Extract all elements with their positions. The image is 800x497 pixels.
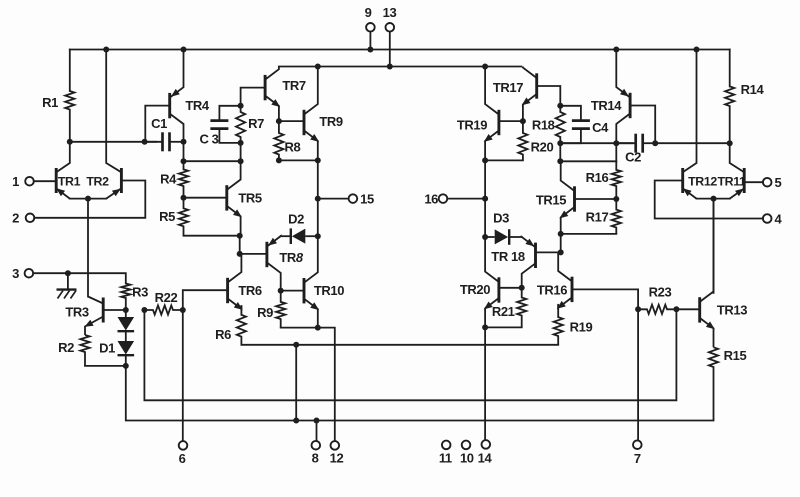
svg-text:C 3: C 3 (199, 132, 218, 147)
wire pin 1 to TR1 base (34, 180, 56, 182)
wire R21 bottom to TR20 emitter (485, 326, 522, 328)
node TR8 collector / TR10 base / R9 (278, 288, 284, 294)
transistor TR5 (225, 185, 228, 210)
resistor R20 (518, 121, 527, 160)
node R8 bottom / TR9 emitter (276, 157, 282, 163)
wire TR4 collector chain down (183, 142, 185, 161)
wire TR11-TR12 emitter bridge (697, 198, 730, 200)
pin 13 (386, 23, 395, 32)
svg-text:TR7: TR7 (282, 78, 306, 93)
svg-text:TR1: TR1 (58, 175, 81, 189)
wire R22 right up to TR6 base (183, 290, 228, 310)
wire TR9 emitter node down to pin 15 (317, 160, 319, 198)
wire TR8 emitter to D2 cathode (281, 235, 291, 237)
svg-text:TR13: TR13 (717, 303, 747, 318)
resistor R9 (276, 291, 285, 328)
node R22 right (180, 307, 186, 313)
node TR17 emitter / R20 / TR19 base (520, 118, 526, 124)
svg-text:TR9: TR9 (319, 114, 343, 129)
junction pin9/rail (367, 47, 373, 53)
svg-text:R19: R19 (570, 320, 593, 335)
svg-text:R16: R16 (586, 170, 609, 185)
wire TR15 emitter node down (560, 234, 562, 253)
pin 2 (26, 214, 35, 223)
wire R2 bottom to D1 bottom (85, 365, 126, 367)
transistor TR17 (535, 73, 538, 98)
svg-text:C2: C2 (625, 150, 641, 165)
svg-text:3: 3 (12, 266, 19, 281)
diode D2 (290, 228, 292, 244)
wire R16 row (560, 160, 616, 162)
pin 16 (439, 194, 448, 203)
resistor R22 (144, 305, 182, 314)
wire TR7 emitter node to TR9 base (279, 120, 303, 122)
pin 5 (763, 178, 772, 187)
node C2 left / TR14 collector (613, 140, 619, 146)
transistor TR19 (497, 110, 500, 135)
wire pin 7 drop (637, 309, 639, 440)
node TR9 emitter bottom (315, 157, 321, 163)
node emitters TR1/TR2 (85, 196, 91, 202)
wire pin 9 to rail (369, 32, 371, 50)
svg-text:TR11: TR11 (717, 175, 746, 189)
wire TR1-TR2 emitter bridge (70, 198, 106, 200)
wire R9 bottom to TR10 emitter (281, 327, 318, 329)
svg-text:TR 18: TR 18 (491, 249, 525, 264)
wire TR17 emitter node to TR19 base (499, 120, 523, 122)
node C2 right / TR14 base (652, 140, 658, 146)
transistor TR9 (303, 110, 306, 135)
node R1 bottom / TR1 collector (67, 139, 73, 145)
transistor TR6 (226, 278, 229, 303)
junction TR19 collector / rail2 (482, 64, 488, 70)
wire C3 bottom stub (219, 129, 240, 143)
junction pin13/rail2 (387, 64, 393, 70)
svg-text:6: 6 (179, 451, 186, 466)
svg-text:TR8: TR8 (279, 250, 304, 265)
node R18 bottom / C2 row (557, 140, 563, 146)
resistor R19 (554, 317, 563, 345)
wire TR4 base (145, 106, 169, 142)
resistor R15 (709, 347, 718, 420)
node TR20 emitter / R21 bottom (482, 324, 488, 330)
transistor TR10 (303, 278, 306, 303)
transistor TR7 (264, 75, 267, 100)
node ground tap (65, 270, 71, 276)
svg-text:TR2: TR2 (86, 175, 109, 189)
svg-text:12: 12 (330, 451, 344, 466)
svg-text:TR17: TR17 (493, 80, 523, 95)
transistor TR13 (698, 297, 701, 322)
svg-text:C4: C4 (592, 120, 609, 135)
wire pin 13 to second rail (389, 32, 391, 67)
node R4/R5/TR5 base (181, 195, 187, 201)
pin 8 (312, 441, 321, 450)
node pin 8 tap (314, 418, 320, 424)
transistor TR8 (265, 242, 268, 267)
wire TR20 emitter to pin 14 (484, 327, 486, 440)
transistor TR20 (497, 277, 500, 302)
svg-text:TR16: TR16 (537, 283, 567, 298)
wire TR7 base (241, 88, 266, 106)
wire output emitters bus (R6-R19) (241, 344, 558, 346)
node pin15 tap (315, 196, 321, 202)
wire R5 bottom to TR5 emitter node (184, 235, 240, 237)
wire tap down (295, 345, 297, 421)
wire emitters down to TR3 collector (87, 199, 89, 297)
node R22 left (141, 307, 147, 313)
wire C4 bottom stub (560, 129, 581, 144)
svg-text:15: 15 (360, 192, 374, 207)
wire emitters down to TR13 collector (713, 199, 715, 293)
node R4 top / R7C3 row (181, 158, 187, 164)
wire second rail (TR7-TR17 collectors) (279, 66, 521, 68)
node R16/R17/TR15 base (613, 196, 619, 202)
pin 11 (442, 441, 451, 450)
wire TR16 base (572, 289, 638, 309)
capacitor C1 (161, 132, 164, 151)
node R23 right / TR13 base (673, 306, 679, 312)
svg-text:16: 16 (424, 192, 438, 207)
resistor R1 (65, 91, 74, 142)
resistor R16 (612, 161, 621, 199)
svg-text:R2: R2 (58, 340, 74, 355)
svg-text:R8: R8 (285, 140, 301, 155)
svg-text:R21: R21 (492, 304, 515, 319)
wire R22 left down to bus (144, 309, 676, 400)
wire TR20 base (499, 287, 522, 289)
wire C4 top stub (560, 106, 581, 121)
svg-text:2: 2 (12, 211, 19, 226)
resistor R14 (725, 86, 734, 143)
transistor TR14 (629, 93, 632, 118)
svg-text:C1: C1 (151, 116, 167, 131)
transistor TR3 (102, 298, 105, 323)
node TR18 base / TR16 collector (558, 249, 564, 255)
junction TR9 collector / rail2 (315, 64, 321, 70)
wire R8 bottom to TR9 emitter (279, 159, 318, 161)
node TR19 emitter bottom (482, 157, 488, 163)
node D1 bottom / R2 (123, 363, 129, 369)
junction TR4 emitter / rail (181, 47, 187, 53)
wire R14 top lead from rail (729, 50, 731, 87)
svg-text:4: 4 (775, 211, 783, 226)
svg-text:10: 10 (460, 451, 474, 466)
svg-text:1: 1 (12, 174, 19, 189)
node R7/C3 bottom (238, 140, 244, 146)
transistor TR1 (55, 168, 58, 193)
node R16 row tee (557, 158, 563, 164)
resistor R17 (612, 199, 621, 234)
wire TR19 emitter node down to pin16 tap (484, 160, 486, 198)
svg-text:R1: R1 (42, 95, 58, 110)
wire D1 bottom down to lower bus (126, 366, 714, 421)
wire TR15 base (575, 198, 617, 200)
resistor R3 (121, 284, 130, 311)
svg-text:11: 11 (439, 451, 452, 466)
svg-text:TR15: TR15 (536, 193, 566, 208)
svg-text:R18: R18 (532, 118, 555, 133)
svg-text:TR6: TR6 (238, 283, 262, 298)
wire C2 row right to R14 bottom (655, 142, 730, 144)
resistor R6 (237, 315, 246, 345)
wire TR3 base to R3/D1 node (103, 309, 126, 311)
wire pin 3 to R3 (33, 273, 126, 283)
wire R22 right down to pin 6 (182, 310, 184, 441)
node D2 anode / TR10 collector (315, 233, 321, 239)
wire TR5 emitter node down (239, 236, 241, 254)
capacitor C4 (572, 119, 590, 122)
wire R7C3 row (184, 160, 241, 162)
junction tap/lower bus (293, 418, 299, 424)
wire TR14 base (630, 106, 655, 144)
wire TR18 base row (536, 251, 561, 253)
svg-text:7: 7 (634, 451, 641, 466)
pin 15 (349, 194, 358, 203)
resistor R7 (236, 106, 245, 143)
wire pin 5 to TR11 base (744, 181, 763, 183)
svg-text:8: 8 (312, 451, 319, 466)
svg-text:R15: R15 (724, 348, 747, 363)
node bus tap to pin8 rail (293, 342, 299, 348)
svg-text:R22: R22 (155, 290, 178, 305)
svg-text:R6: R6 (215, 327, 231, 342)
wire pin 16 to node (447, 198, 485, 200)
wire TR16 emitter to R19 (557, 305, 559, 317)
svg-text:TR10: TR10 (314, 283, 344, 298)
svg-text:TR19: TR19 (457, 118, 487, 133)
svg-text:R7: R7 (248, 116, 264, 131)
node TR5 collector / row (238, 158, 244, 164)
svg-text:R9: R9 (257, 305, 273, 320)
svg-text:13: 13 (383, 5, 397, 20)
wire R18 chain down (559, 143, 561, 161)
transistor TR18 (534, 243, 537, 268)
wire TR14 collector to R16 top (615, 143, 617, 161)
svg-text:R3: R3 (132, 285, 148, 300)
resistor R5 (179, 198, 188, 236)
wire R23 right to TR13 base (676, 308, 699, 310)
pin 3 (25, 269, 34, 278)
pin 4 (763, 214, 772, 223)
node TR8 base / TR6 collector (237, 251, 243, 257)
pin 7 (633, 440, 642, 449)
node C1 right / TR4 collector (181, 139, 187, 145)
svg-text:TR20: TR20 (460, 282, 490, 297)
transistor TR12 (681, 168, 684, 193)
svg-text:D1: D1 (99, 341, 115, 356)
pin 12 (331, 441, 340, 450)
svg-text:TR4: TR4 (185, 98, 210, 113)
wire TR17 base (537, 86, 561, 106)
node R3/TR3 base/D1/R22 (123, 307, 129, 313)
wire pin 2 to TR2 base (34, 181, 145, 218)
svg-text:14: 14 (478, 451, 493, 466)
wire pin 8 stub (316, 421, 318, 442)
resistor R23 (638, 305, 676, 314)
svg-text:R20: R20 (531, 140, 554, 155)
node R7/C3 top / TR7 base (238, 103, 244, 109)
wire TR8 base row (240, 253, 267, 255)
svg-text:R23: R23 (649, 285, 672, 300)
node R14 bottom / TR11 collector (727, 140, 733, 146)
svg-text:5: 5 (775, 175, 782, 190)
wire C3 top stub (219, 106, 240, 121)
node TR4 base / C1 left (142, 139, 148, 145)
resistor R8 (274, 121, 283, 160)
capacitor C2 (634, 134, 637, 153)
node R23 left / pin 7 (635, 306, 641, 312)
transistor TR15 (573, 186, 576, 211)
diode D3 (508, 229, 510, 245)
wire R7 bottom to row (240, 143, 242, 161)
wire TR18 emitter to D3 cathode (509, 236, 522, 238)
svg-text:R4: R4 (160, 172, 177, 187)
svg-text:TR14: TR14 (591, 98, 622, 113)
node D3 anode / TR20 collector (482, 234, 488, 240)
transistor TR2 (120, 168, 123, 193)
pin 1 (25, 177, 34, 186)
wire TR6 emitter to R6 (240, 306, 242, 315)
wire top supply rail (pins 9/13) (70, 49, 730, 51)
diode D1 (dual) (125, 310, 127, 317)
node emitters TR11/TR12 (711, 196, 717, 202)
svg-text:TR3: TR3 (65, 305, 89, 320)
transistor TR16 (571, 277, 574, 302)
wire pin 4 to TR12 base (655, 181, 763, 219)
svg-text:R17: R17 (586, 210, 609, 225)
node TR7 emitter / R8 / TR9 base (276, 118, 282, 124)
pin 14 (482, 440, 491, 449)
junction TR12 collector / rail (694, 47, 700, 53)
capacitor C3 (210, 119, 228, 122)
svg-text:D2: D2 (288, 212, 304, 227)
svg-text:TR12: TR12 (688, 175, 717, 189)
resistor R2 (80, 335, 89, 366)
svg-text:R14: R14 (741, 82, 765, 97)
wire TR10 emitter to pin 12 (318, 328, 335, 442)
node R18/C4 top / TR17 base (557, 103, 563, 109)
node TR10 emitter / R9 bottom (315, 325, 321, 331)
junction TR14 emitter / rail (613, 47, 619, 53)
wire TR10 base (281, 290, 304, 292)
resistor R18 (556, 106, 565, 143)
ground symbol (67, 273, 69, 289)
junction TR2 collector / rail (103, 47, 109, 53)
svg-text:TR5: TR5 (238, 191, 262, 206)
wire R1 bottom to C1 row (70, 141, 156, 143)
transistor TR11 (743, 168, 746, 193)
wire pin15 node down to D2 anode (317, 199, 319, 237)
svg-text:9: 9 (365, 5, 372, 20)
pin 6 (179, 441, 188, 450)
wire pin16 tap down to D3 anode (484, 199, 486, 237)
pin 10 (462, 441, 471, 450)
node TR18 collector / TR20 base / R21 (519, 285, 525, 291)
node TR15 emitter / R17 (558, 231, 564, 237)
wire C2 row left (R18 bottom to C2) (560, 142, 632, 144)
svg-text:R5: R5 (159, 209, 175, 224)
wire R20 bottom to TR19 emitter (485, 159, 523, 161)
node pin16 tap (482, 196, 488, 202)
wire TR5 base (184, 197, 227, 199)
resistor R4 (179, 161, 188, 198)
wire R17 bottom to TR15 emitter node (561, 233, 616, 235)
pin 9 (366, 23, 375, 32)
node TR5 emitter / R5 (237, 233, 243, 239)
wire to pin 15 (318, 198, 349, 200)
wire R1 top lead from rail (69, 50, 71, 92)
transistor TR4 (168, 93, 171, 118)
svg-text:D3: D3 (493, 211, 509, 226)
resistor R21 (517, 288, 526, 328)
